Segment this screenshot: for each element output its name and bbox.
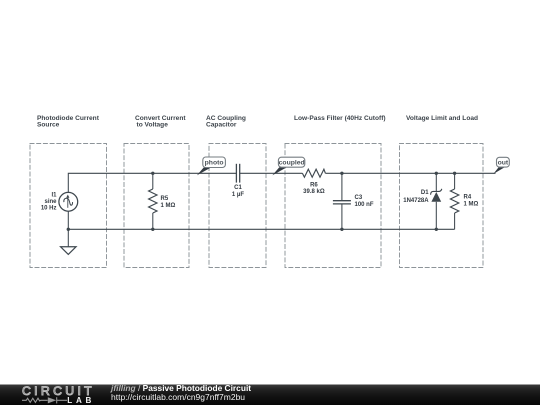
title Voltage Limit and Load (406, 115, 478, 122)
node flag coupled (272, 157, 305, 175)
svg-text:I1: I1 (51, 192, 57, 198)
resistor R4 (450, 173, 458, 229)
svg-text:Voltage Limit and Load: Voltage Limit and Load (406, 115, 478, 122)
diode D1 zener (431, 173, 442, 229)
svg-text:R5: R5 (161, 196, 169, 202)
label C1 1 uF (232, 185, 244, 198)
junction bottom R5 (151, 228, 154, 231)
label C3 100 nF (355, 195, 374, 208)
label R4 1 MOhm (464, 194, 479, 207)
ground (61, 229, 76, 254)
logo resistor diode line (22, 397, 67, 403)
label R6 39.8 kOhm (303, 183, 325, 196)
junction bottom I1 (67, 228, 70, 231)
svg-text:C1: C1 (234, 185, 242, 191)
svg-text:10 Hz: 10 Hz (41, 206, 57, 212)
svg-text:to Voltage: to Voltage (137, 122, 169, 129)
svg-text:1 MΩ: 1 MΩ (161, 203, 176, 209)
svg-text:http://circuitlab.com/cn9g7nff: http://circuitlab.com/cn9g7nff7m2bu (111, 392, 245, 402)
svg-text:100 nF: 100 nF (355, 202, 374, 208)
node flag out (493, 157, 509, 174)
svg-text:out: out (498, 160, 509, 167)
svg-text:sine: sine (44, 199, 57, 205)
wire bottom rail (68, 228, 454, 230)
svg-text:R4: R4 (464, 194, 472, 200)
svg-text:39.8 kΩ: 39.8 kΩ (303, 189, 325, 195)
svg-text:LAB: LAB (67, 396, 95, 405)
wire top rail mid (240, 172, 303, 174)
svg-text:R6: R6 (310, 183, 318, 189)
wire top rail left (68, 173, 236, 192)
footer title line (110, 383, 251, 402)
title Low-Pass Filter (40Hz Cutoff) (294, 115, 386, 122)
label D1 1N4728A (403, 190, 429, 204)
current source I1 (59, 192, 78, 229)
svg-text:D1: D1 (421, 190, 429, 196)
logo CIRCUIT text (22, 384, 95, 398)
svg-text:C3: C3 (355, 195, 363, 201)
label I1 sine 10 Hz (41, 192, 57, 211)
junction bottom C3 (340, 228, 343, 231)
box Voltage Limit and Load (400, 144, 484, 268)
title Photodiode Current Source (37, 115, 100, 129)
svg-text:coupled: coupled (279, 160, 305, 167)
logo LAB text (67, 396, 95, 405)
resistor R6 (302, 169, 325, 177)
wire top rail right (325, 172, 495, 174)
junction top R5 (151, 172, 154, 175)
title Convert Current to Voltage (135, 115, 186, 129)
box AC Coupling Capacitor (209, 144, 266, 268)
svg-text:1N4728A: 1N4728A (403, 198, 429, 204)
svg-text:Capacitor: Capacitor (206, 122, 237, 129)
svg-text:Low-Pass Filter (40Hz Cutoff): Low-Pass Filter (40Hz Cutoff) (294, 115, 386, 122)
box Photodiode Current Source (30, 144, 107, 268)
junction top R4 (453, 172, 456, 175)
label R5 1 MOhm (161, 196, 176, 209)
node flag photo (197, 157, 226, 175)
junction top C3 (340, 172, 343, 175)
capacitor C1 (236, 164, 239, 183)
svg-text:Source: Source (37, 122, 60, 129)
resistor R5 (149, 173, 157, 229)
capacitor C3 (333, 173, 351, 229)
box Convert Current to Voltage (124, 144, 189, 268)
title AC Coupling Capacitor (206, 115, 246, 129)
svg-text:1 µF: 1 µF (232, 192, 244, 198)
junction bottom D1 (435, 228, 438, 231)
box Low-Pass Filter (285, 144, 381, 268)
svg-text:photo: photo (205, 160, 224, 167)
svg-text:1 MΩ: 1 MΩ (464, 201, 479, 207)
junction top D1 (435, 172, 438, 175)
